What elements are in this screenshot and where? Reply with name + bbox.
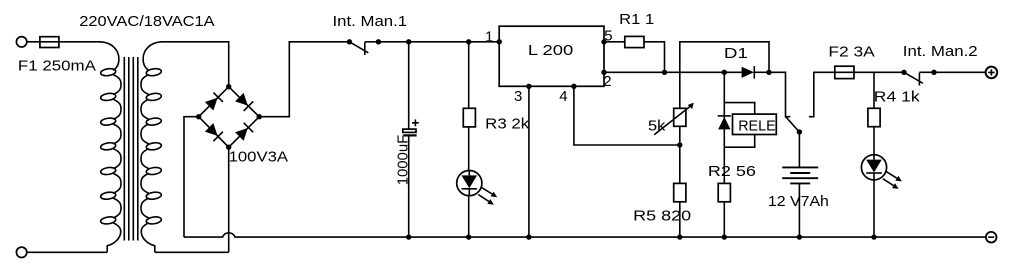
resistor R4 <box>868 108 880 126</box>
wire R5 to rail <box>679 202 681 237</box>
wire pin 2 line to D1 anode <box>604 71 742 73</box>
wire down to R3 <box>468 42 470 109</box>
node R2 at rail <box>722 234 727 239</box>
wire R3 to LED <box>468 127 470 171</box>
wire D1 cathode <box>754 71 769 73</box>
node pin3 at rail <box>526 234 531 239</box>
wire R4 to LED2 <box>873 127 875 155</box>
pin 2 dot <box>601 70 606 75</box>
pin 3 dot <box>526 84 531 89</box>
relay contact left stub from D1 node <box>769 72 790 116</box>
wire down to capacitor <box>408 42 410 129</box>
wire pin 5 to R1 <box>604 41 625 43</box>
svg-text:1000uF: 1000uF <box>395 135 412 186</box>
wire capacitor to ground rail <box>408 137 410 238</box>
wire switch to plus terminal <box>934 71 986 73</box>
fuse F1 <box>40 37 59 48</box>
wire top rail from switch to L200 pin 1 <box>378 41 499 43</box>
node R1 junction <box>662 70 667 75</box>
svg-text:12 V7Ah: 12 V7Ah <box>768 193 829 210</box>
regulator U1 L200 <box>499 26 604 86</box>
resistor R2 <box>718 183 730 201</box>
node pot/pin4/R5 junction <box>677 142 682 147</box>
node relay branch junction <box>722 70 727 75</box>
potentiometer 5k body <box>674 108 686 126</box>
wire secondary top to bridge top node <box>161 42 229 87</box>
LED indicator 1 <box>457 171 498 205</box>
node LED2 at rail <box>871 234 876 239</box>
svg-text:4: 4 <box>559 88 567 105</box>
LED indicator 2 <box>861 155 902 189</box>
svg-text:R2 56: R2 56 <box>708 163 756 180</box>
transformer T1 primary winding <box>100 42 121 253</box>
node D1 cathode junction <box>766 70 771 75</box>
transformer core <box>124 57 138 241</box>
relay flyback diode <box>718 117 730 129</box>
svg-text:D1: D1 <box>724 45 748 62</box>
resistor R1 <box>625 36 644 47</box>
bridge node bottom <box>226 145 231 150</box>
resistor R3 <box>463 108 475 127</box>
wire from terminal to fuse F1 and corner into transformer primary <box>27 41 101 43</box>
bridge node top <box>226 84 231 89</box>
svg-text:5k: 5k <box>648 118 666 135</box>
svg-text:R4 1k: R4 1k <box>874 88 920 105</box>
wire bottom-left rail to primary <box>27 251 107 253</box>
wire battery to rail <box>798 183 800 237</box>
battery 12V 7Ah <box>782 167 818 183</box>
node capacitor at rail <box>406 234 411 239</box>
bridge diode bottom-left <box>204 123 223 142</box>
svg-text:L 200: L 200 <box>528 42 573 59</box>
node R3 junction top <box>466 39 471 44</box>
node R5 at rail <box>677 234 682 239</box>
wire LED to ground rail <box>468 196 470 237</box>
transformer T1 secondary winding <box>141 42 162 253</box>
potentiometer arrow <box>654 106 690 135</box>
bridge diode bottom-right <box>235 123 254 142</box>
svg-text:R5 820: R5 820 <box>633 208 691 225</box>
bridge rectifier diamond <box>199 87 260 148</box>
svg-text:R3 2k: R3 2k <box>485 115 530 132</box>
svg-text:220VAC/18VAC1A: 220VAC/18VAC1A <box>79 13 214 30</box>
svg-text:RELE: RELE <box>738 118 776 135</box>
output terminal plus <box>986 67 998 79</box>
capacitor C1 bottom plate <box>403 134 416 136</box>
wire pin 4 to pot junction <box>574 86 680 145</box>
wire secondary bottom to bridge bottom node <box>155 147 229 252</box>
svg-text:100V3A: 100V3A <box>229 148 289 165</box>
svg-text:Int. Man.2: Int. Man.2 <box>903 43 978 60</box>
pin 5 dot <box>601 39 606 44</box>
output terminal minus <box>986 232 997 243</box>
node capacitor junction <box>406 39 411 44</box>
pin 1 dot <box>497 39 502 44</box>
wire LED2 to rail <box>873 180 875 237</box>
input terminal top-left <box>16 37 26 47</box>
svg-text:Int. Man.1: Int. Man.1 <box>333 13 408 30</box>
svg-text:3: 3 <box>514 88 522 105</box>
bridge diode top-left <box>204 93 223 112</box>
switch Int. Man.2 <box>901 70 936 86</box>
node LED1 at rail <box>466 234 471 239</box>
svg-text:F2 3A: F2 3A <box>828 43 874 60</box>
relay branch vertical wire <box>723 72 725 183</box>
switch Int. Man.1 <box>347 39 381 55</box>
wire common to battery <box>798 132 800 167</box>
resistor R5 <box>674 183 686 201</box>
wire pot to junction <box>679 126 681 183</box>
relay contact right stub to F2 <box>809 72 835 116</box>
svg-text:1: 1 <box>485 28 493 45</box>
input terminal bottom-left <box>16 247 26 257</box>
fuse F2 <box>835 66 854 78</box>
wire R1 down to pin 2 line <box>644 42 665 73</box>
relay contact blade <box>786 117 800 133</box>
wire bridge left node to ground rail corner <box>184 117 199 237</box>
relay RELE box <box>733 114 777 134</box>
svg-text:R1 1: R1 1 <box>619 11 654 28</box>
wire bridge right node up to top rail <box>259 42 349 117</box>
wire pin 3 to ground rail <box>528 86 530 237</box>
wire R2 to rail <box>723 202 725 237</box>
svg-text:F1 250mA: F1 250mA <box>18 58 96 75</box>
node battery at rail <box>797 234 802 239</box>
svg-text:2: 2 <box>603 73 611 90</box>
bridge node left <box>196 114 201 119</box>
bridge node right <box>257 114 262 119</box>
diode D1 <box>742 67 754 78</box>
ground rail with hop over bridge AC wire <box>184 233 986 237</box>
pin 4 dot <box>571 84 576 89</box>
wire R4 branch <box>873 72 875 108</box>
capacitor plus sign <box>412 119 419 126</box>
node relay common <box>797 129 802 134</box>
capacitor C1 1000uF electrolytic top plate <box>403 129 416 132</box>
relay coil loop wire <box>724 103 754 148</box>
wire pot top bypass to D1 cathode <box>680 42 769 109</box>
bridge diode top-right <box>235 92 254 111</box>
